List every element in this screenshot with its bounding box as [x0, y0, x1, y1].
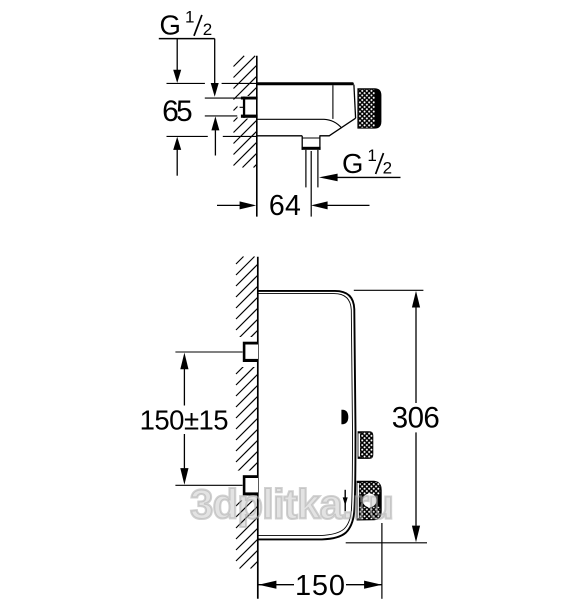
svg-text:1: 1: [367, 146, 376, 165]
svg-text:64: 64: [269, 190, 301, 222]
svg-text:306: 306: [392, 402, 440, 435]
svg-text:G: G: [160, 10, 181, 41]
svg-text:G: G: [342, 148, 363, 179]
svg-text:150: 150: [295, 570, 345, 602]
svg-text:2: 2: [383, 158, 392, 177]
svg-text:3dplitka.ru: 3dplitka.ru: [190, 480, 394, 527]
svg-text:65: 65: [162, 95, 193, 128]
svg-text:1: 1: [185, 7, 194, 26]
svg-text:150±15: 150±15: [140, 404, 229, 435]
svg-text:2: 2: [203, 20, 212, 39]
